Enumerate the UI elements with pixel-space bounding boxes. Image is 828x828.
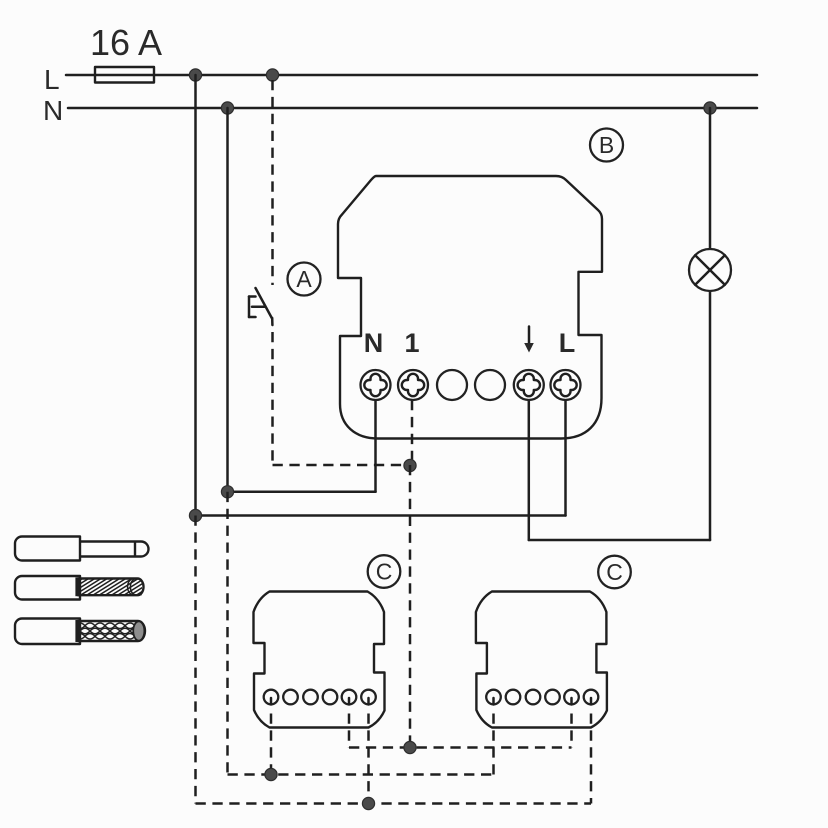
cable 1 solid conductor bbox=[15, 537, 149, 561]
cable 2 stranded conductor bbox=[15, 576, 179, 600]
wire dashed bus 3 bbox=[196, 802, 592, 805]
terminals of C1 bbox=[264, 690, 376, 705]
terminal L of B (screw) bbox=[551, 370, 581, 400]
wire stub C1 terminal 1 bbox=[270, 698, 273, 775]
terminals of C2 bbox=[486, 690, 598, 705]
node bus3 junction (368.5,803.5) bbox=[362, 797, 374, 809]
wire dashed left branch from (227,492) down to bus 2 bbox=[226, 492, 229, 775]
svg-text:L: L bbox=[44, 64, 60, 95]
wire N line bbox=[68, 107, 757, 110]
wire stub C2 terminal 5 bbox=[570, 698, 573, 748]
wire vertical terminal L of B down bbox=[564, 400, 567, 516]
wire vertical from L node down to junction (195,516) bbox=[194, 75, 197, 516]
svg-text:L: L bbox=[559, 328, 576, 358]
wire dashed switch feed from L node down to push-button bbox=[271, 80, 274, 285]
node on N line at x=710 (lamp branch) bbox=[704, 102, 716, 114]
svg-text:16 A: 16 A bbox=[90, 22, 162, 63]
wire dashed bus 1 (t5 C1 to t5 C2) bbox=[349, 746, 572, 749]
label arrow above terminal bbox=[524, 327, 534, 353]
terminal N of B (screw) bbox=[361, 370, 391, 400]
terminal arrow of B (screw) bbox=[514, 370, 544, 400]
svg-text:C: C bbox=[606, 559, 623, 585]
label circle B bbox=[590, 129, 623, 162]
wire dashed from push-button down to link bbox=[271, 332, 274, 465]
wire vertical from N node down to junction (227,492) bbox=[226, 108, 229, 492]
wire vertical from arrow terminal of B down bbox=[528, 400, 531, 540]
node dashed junction (410,465) bbox=[404, 459, 416, 471]
device C2 outline bbox=[476, 592, 607, 728]
wire stub C1 terminal 6 bbox=[367, 698, 370, 804]
wire dashed link horizontal to terminal-1 branch bbox=[273, 464, 411, 467]
wire horizontal junction (195,516) to terminal L of B bbox=[196, 514, 566, 517]
lamp E1 bbox=[689, 249, 731, 291]
wire stub C2 terminal 1 bbox=[492, 698, 495, 775]
label circle C2 bbox=[598, 556, 631, 589]
wire stub C2 terminal 6 bbox=[590, 698, 593, 804]
svg-text:A: A bbox=[296, 266, 312, 292]
svg-text:N: N bbox=[364, 328, 384, 358]
wire horizontal arrow terminal to lamp branch bbox=[529, 539, 710, 542]
svg-text:B: B bbox=[599, 132, 614, 158]
svg-text:C: C bbox=[376, 559, 393, 585]
device C1 outline bbox=[254, 592, 385, 728]
wire L line bbox=[66, 74, 757, 77]
wire lamp branch upper (N line to lamp) bbox=[709, 108, 712, 249]
terminal 1 of B (screw) bbox=[398, 370, 428, 400]
label circle A bbox=[288, 263, 321, 296]
node junction (195,516) bbox=[189, 509, 201, 521]
node bus1 junction (410,746.5) bbox=[404, 741, 416, 753]
terminal blank 2 of B bbox=[475, 370, 505, 400]
wire lamp branch lower (lamp to horizontal run) bbox=[709, 291, 712, 540]
wire dashed terminal-1 branch down to bottom bus 1 bbox=[409, 465, 412, 748]
terminal blank 1 of B bbox=[437, 370, 467, 400]
svg-text:N: N bbox=[43, 95, 63, 126]
label circle C1 bbox=[368, 555, 401, 588]
wire stub C1 terminal 5 bbox=[348, 698, 351, 748]
cable 3 fine-stranded conductor bbox=[15, 619, 150, 645]
wire horizontal junction to terminal N of B bbox=[228, 491, 376, 494]
node junction (227,492) bbox=[221, 486, 233, 498]
node on N line at x=227 bbox=[221, 102, 233, 114]
wire dashed from terminal 1 of B down bbox=[411, 400, 414, 465]
wire vertical terminal N of B down bbox=[374, 400, 377, 492]
node on L line at x=195 bbox=[189, 69, 201, 81]
push-button switch S (label A) bbox=[249, 288, 272, 325]
node bus2 junction (271,774.5) bbox=[265, 768, 277, 780]
node on L line at x=272 (switch branch) bbox=[266, 69, 278, 81]
wire dashed bus 2 bbox=[228, 773, 494, 776]
wire dashed left branch from (195,516) down to bus 3 bbox=[194, 516, 197, 804]
fuse F1 16A bbox=[90, 22, 162, 83]
device B outline (flush-mount insert) bbox=[338, 176, 602, 439]
svg-text:1: 1 bbox=[404, 328, 419, 358]
